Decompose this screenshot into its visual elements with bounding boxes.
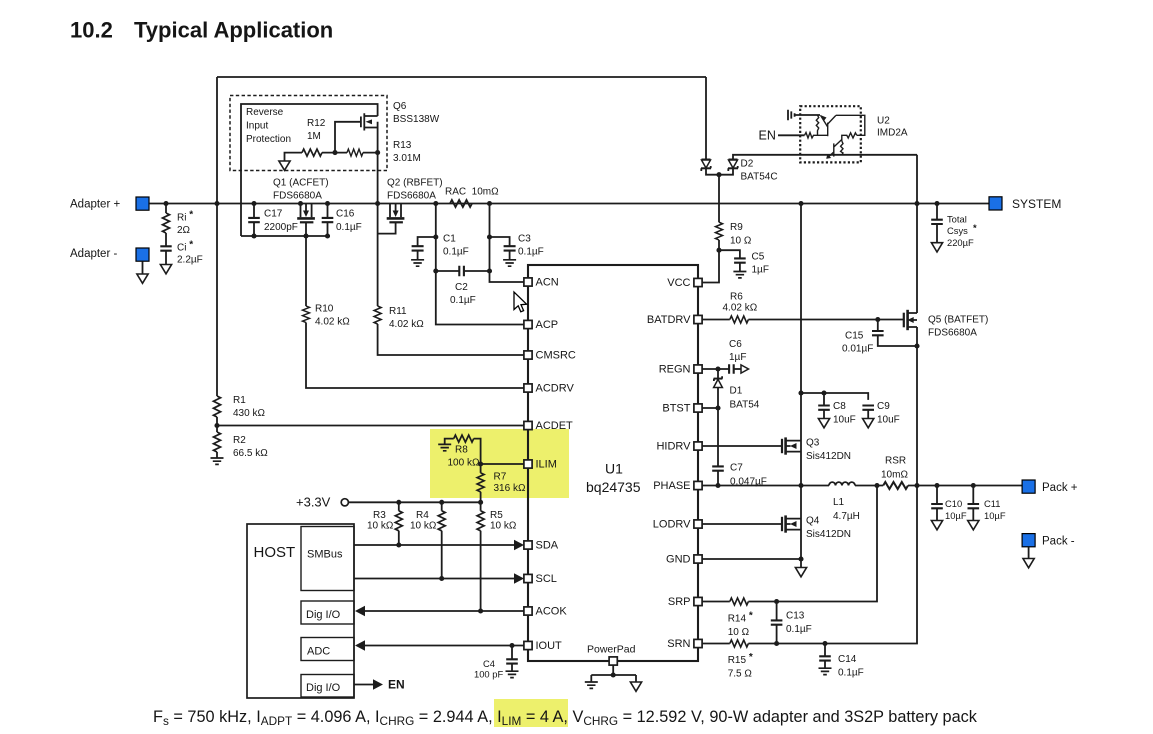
node C2 left bbox=[433, 268, 438, 273]
node R5/R7 top bbox=[478, 500, 483, 505]
transistor Q5 bbox=[904, 310, 917, 330]
svg-text:C13: C13 bbox=[786, 611, 805, 622]
svg-text:66.5 kΩ: 66.5 kΩ bbox=[233, 448, 268, 459]
svg-text:0.1µF: 0.1µF bbox=[518, 247, 544, 258]
U2 box dotted bbox=[800, 106, 861, 162]
Pack - terminal bbox=[1022, 534, 1035, 547]
svg-text:Sis412DN: Sis412DN bbox=[806, 451, 851, 462]
U2 internal transistor 1 bbox=[805, 115, 836, 138]
wire C2 left lead bbox=[436, 270, 459, 272]
Q1 arrow bbox=[303, 211, 309, 218]
pin SCL bbox=[524, 574, 532, 582]
svg-text:Ri *: Ri * bbox=[177, 210, 193, 224]
capacitor C14 bbox=[824, 644, 826, 657]
wire R12-R13 bbox=[322, 152, 347, 154]
node REGN tap bbox=[715, 366, 720, 371]
svg-text:2200pF: 2200pF bbox=[264, 222, 298, 233]
capacitor Ci bbox=[160, 246, 171, 250]
svg-text:U1: U1 bbox=[605, 461, 623, 477]
svg-text:SRP: SRP bbox=[668, 596, 691, 608]
svg-text:GND: GND bbox=[666, 554, 691, 566]
EN arrowhead bbox=[373, 679, 383, 690]
pin BTST bbox=[694, 404, 702, 412]
svg-text:FDS6680A: FDS6680A bbox=[928, 328, 977, 339]
svg-text:C4: C4 bbox=[483, 658, 495, 669]
resistor R9 bbox=[716, 222, 723, 240]
node C1 tap bbox=[433, 234, 438, 239]
capacitor C11 bbox=[972, 486, 974, 504]
resistor R14 bbox=[730, 598, 749, 605]
capacitor C3 bbox=[504, 246, 516, 250]
pin SDA bbox=[524, 541, 532, 549]
wire R7 bottom bbox=[480, 492, 482, 503]
svg-text:C17: C17 bbox=[264, 209, 283, 220]
Adapter + terminal bbox=[136, 197, 149, 210]
svg-text:R5: R5 bbox=[490, 510, 503, 521]
wire R8 right down to ILIM bbox=[474, 439, 481, 473]
mouse cursor bbox=[514, 292, 527, 312]
svg-text:RSR: RSR bbox=[885, 456, 906, 467]
wire D2 common down to R9 (crossover rail) bbox=[718, 175, 720, 223]
diode D2a bbox=[701, 160, 711, 172]
svg-text:ADC: ADC bbox=[307, 646, 330, 658]
svg-text:10 kΩ: 10 kΩ bbox=[490, 521, 517, 532]
wire R1-R2 bbox=[216, 417, 218, 432]
wire C1 branch bbox=[418, 237, 436, 246]
node Q1 rail tap right bbox=[325, 201, 330, 206]
wire SDA bbox=[354, 544, 515, 546]
wire R6 to Q5 gate bbox=[748, 319, 903, 321]
ground (R8) bbox=[438, 444, 451, 450]
transistor Q1 bbox=[297, 204, 315, 223]
wire R5 to ACOK bbox=[480, 531, 482, 611]
ground (C1) bbox=[411, 260, 424, 266]
wire D1 to BTST bbox=[717, 388, 719, 467]
svg-text:10µF: 10µF bbox=[945, 510, 967, 521]
transistor Q6 bbox=[357, 113, 378, 152]
resistor Ri bbox=[163, 213, 170, 233]
pin ACP bbox=[524, 320, 532, 328]
svg-text:Q2 (RBFET): Q2 (RBFET) bbox=[387, 178, 443, 189]
svg-text:430 kΩ: 430 kΩ bbox=[233, 408, 265, 419]
svg-text:Q3: Q3 bbox=[806, 438, 820, 449]
svg-text:Fs = 750 kHz, IADPT = 4.096 A,: Fs = 750 kHz, IADPT = 4.096 A, ICHRG = 2… bbox=[153, 708, 978, 728]
svg-text:ILIM: ILIM bbox=[536, 459, 557, 471]
wire system drop rail (x=801) bbox=[800, 204, 802, 568]
resistor R10 bbox=[303, 306, 310, 323]
capacitor C2 bbox=[459, 266, 464, 276]
dashed box reverse input protection bbox=[230, 96, 387, 171]
pin REGN bbox=[694, 365, 702, 373]
wire GND bbox=[702, 558, 801, 560]
resistor R4 bbox=[441, 502, 443, 511]
svg-text:ACP: ACP bbox=[536, 319, 559, 331]
capacitor C16 bbox=[327, 204, 329, 237]
wire R14 to sense bbox=[748, 486, 877, 602]
node rail common drain bbox=[375, 201, 380, 206]
ground (C5) bbox=[733, 272, 746, 278]
svg-text:+3.3V: +3.3V bbox=[296, 495, 331, 510]
wire EN from host bbox=[354, 684, 374, 686]
Q2 arrow bbox=[393, 211, 399, 218]
svg-text:C1: C1 bbox=[443, 234, 456, 245]
svg-text:C6: C6 bbox=[729, 339, 742, 350]
node ACDET divider bbox=[214, 423, 219, 428]
wire PowerPad grounds bbox=[591, 665, 636, 682]
svg-text:Sis412DN: Sis412DN bbox=[806, 529, 851, 540]
capacitor C17 bbox=[253, 204, 255, 237]
yellow highlight ILIM region bbox=[430, 429, 569, 498]
pin IOUT bbox=[524, 641, 532, 649]
svg-text:Adapter +: Adapter + bbox=[70, 199, 120, 211]
wire Q1 gate lead bbox=[305, 223, 307, 236]
node Q1 gate bbox=[303, 233, 308, 238]
svg-text:Pack +: Pack + bbox=[1042, 482, 1078, 494]
resistor RAC bbox=[450, 200, 472, 207]
wire C2 right lead bbox=[464, 270, 490, 272]
svg-text:R4: R4 bbox=[416, 510, 429, 521]
svg-text:EN: EN bbox=[388, 678, 405, 692]
svg-text:BAT54: BAT54 bbox=[730, 400, 760, 411]
HOST ADC box bbox=[301, 638, 354, 661]
node C17 top bbox=[251, 201, 256, 206]
ground (Pack-) bbox=[1023, 559, 1034, 568]
wire C3 branch bbox=[490, 237, 510, 246]
wire D2b anode to battery line bbox=[733, 155, 917, 160]
pin GND bbox=[694, 555, 702, 563]
SCL arrowhead bbox=[514, 573, 524, 584]
svg-text:EN: EN bbox=[759, 129, 776, 143]
wire top frame bbox=[217, 76, 706, 78]
wire ILIM bbox=[481, 463, 524, 465]
svg-text:Reverse: Reverse bbox=[246, 107, 284, 118]
node C2 right bbox=[487, 268, 492, 273]
ground (C10) bbox=[931, 521, 942, 530]
capacitor C7 bbox=[712, 466, 724, 470]
svg-text:10.2Typical Application: 10.2Typical Application bbox=[70, 17, 333, 42]
capacitor C6 bbox=[729, 364, 734, 373]
svg-text:C9: C9 bbox=[877, 401, 890, 412]
node RSR left / SRP sense bbox=[874, 483, 879, 488]
wire battery line to system rail bbox=[916, 155, 918, 204]
wire RSR right to Pack+ bbox=[908, 485, 1022, 487]
node C13 bottom bbox=[774, 641, 779, 646]
ground (C14) bbox=[819, 668, 832, 674]
ground (C9) bbox=[863, 419, 874, 428]
transistor Q2 bbox=[387, 204, 405, 223]
pin PHASE bbox=[694, 481, 702, 489]
svg-text:10 Ω: 10 Ω bbox=[730, 236, 752, 247]
svg-text:C16: C16 bbox=[336, 209, 355, 220]
wire ACN sense vertical bbox=[490, 204, 525, 283]
svg-text:RAC 10mΩ: RAC 10mΩ bbox=[445, 187, 499, 198]
node C8 top bbox=[821, 390, 826, 395]
svg-text:R13: R13 bbox=[393, 140, 412, 151]
svg-text:C5: C5 bbox=[752, 252, 765, 263]
ground (powerpad right) bbox=[630, 682, 641, 691]
wire Ri top bbox=[165, 204, 167, 214]
capacitor C9 bbox=[862, 406, 874, 410]
pin CMSRC bbox=[524, 351, 532, 359]
svg-text:2Ω: 2Ω bbox=[177, 225, 191, 236]
HOST Dig I/O box bbox=[301, 601, 354, 624]
svg-text:10 Ω: 10 Ω bbox=[728, 627, 750, 638]
node R3 top bbox=[396, 500, 401, 505]
svg-text:REGN: REGN bbox=[659, 364, 691, 376]
wire HIDRV bbox=[702, 445, 782, 447]
ground (Ci) bbox=[160, 265, 171, 274]
svg-text:R10: R10 bbox=[315, 304, 334, 315]
capacitor Csys bbox=[936, 204, 938, 220]
svg-text:10 kΩ: 10 kΩ bbox=[367, 521, 394, 532]
diode D2b bbox=[728, 160, 738, 172]
pin SRN bbox=[694, 639, 702, 647]
svg-text:R12: R12 bbox=[307, 118, 326, 129]
node C10 tap bbox=[934, 483, 939, 488]
node SCL/R4 bbox=[439, 576, 444, 581]
svg-text:10uF: 10uF bbox=[833, 415, 856, 426]
svg-text:PHASE: PHASE bbox=[653, 480, 690, 492]
node ACOK/R5 bbox=[478, 608, 483, 613]
node R9 bottom / C5 bbox=[716, 248, 721, 253]
wire Ci bottom bbox=[165, 251, 167, 265]
svg-text:C11: C11 bbox=[984, 498, 1001, 509]
wire PHASE bbox=[702, 485, 829, 487]
IOUT arrowhead bbox=[355, 640, 365, 651]
resistor R3 bbox=[398, 502, 400, 511]
wire adapter rail bbox=[149, 203, 989, 205]
svg-text:Ci *: Ci * bbox=[177, 240, 193, 254]
wire R9 to VCC bbox=[702, 240, 719, 283]
resistor R11 bbox=[374, 306, 381, 324]
svg-text:IOUT: IOUT bbox=[536, 640, 563, 652]
svg-text:ACOK: ACOK bbox=[536, 606, 568, 618]
resistor R1 bbox=[214, 396, 221, 417]
svg-text:0.1µF: 0.1µF bbox=[450, 295, 476, 306]
svg-text:BATDRV: BATDRV bbox=[647, 314, 691, 326]
node C17 bottom bbox=[251, 233, 256, 238]
wire R11 to CMSRC bbox=[378, 324, 524, 355]
node battery rail top bbox=[914, 201, 919, 206]
svg-text:316 kΩ: 316 kΩ bbox=[494, 483, 526, 494]
svg-text:CMSRC: CMSRC bbox=[536, 350, 576, 362]
ground (powerpad left) bbox=[585, 682, 598, 688]
node C11 tap bbox=[971, 483, 976, 488]
U2 top-side bars symbol bbox=[788, 110, 820, 120]
node powerpad split bbox=[611, 672, 616, 677]
svg-text:R11: R11 bbox=[389, 306, 407, 317]
svg-text:IMD2A: IMD2A bbox=[877, 128, 908, 139]
svg-text:4.02 kΩ: 4.02 kΩ bbox=[315, 317, 350, 328]
node SDA/R3 bbox=[396, 542, 401, 547]
resistor R8 bbox=[454, 435, 474, 442]
svg-text:BAT54C: BAT54C bbox=[741, 172, 778, 183]
svg-text:100 kΩ: 100 kΩ bbox=[448, 458, 480, 469]
svg-text:3.01M: 3.01M bbox=[393, 153, 421, 164]
pin ACDET bbox=[524, 421, 532, 429]
svg-text:ACN: ACN bbox=[536, 277, 559, 289]
wire left vertical from top frame to R1/R2 bbox=[216, 77, 218, 396]
svg-text:R1: R1 bbox=[233, 395, 246, 406]
node BTST bbox=[715, 405, 720, 410]
wire ACOK bbox=[364, 610, 524, 612]
svg-text:bq24735: bq24735 bbox=[586, 479, 641, 495]
svg-text:1M: 1M bbox=[307, 131, 321, 142]
svg-text:FDS6680A: FDS6680A bbox=[273, 191, 322, 202]
node IOUT/C4 bbox=[509, 643, 514, 648]
svg-text:10 kΩ: 10 kΩ bbox=[410, 521, 437, 532]
wire Pack- stub bbox=[1028, 547, 1030, 559]
node RAC left bbox=[433, 201, 438, 206]
resistor R5 bbox=[480, 502, 482, 511]
wire EN to U2 bbox=[778, 134, 805, 136]
wire BATDRV bbox=[702, 319, 730, 321]
wire R10 from Q1 gate bbox=[305, 236, 307, 306]
capacitor C5 bbox=[734, 258, 746, 262]
Q3 arrow bbox=[790, 443, 797, 449]
wire Q2 gate jog bbox=[378, 223, 396, 234]
wire SCL bbox=[354, 578, 515, 580]
svg-text:C10: C10 bbox=[945, 498, 962, 509]
wire R3 to SDA bbox=[398, 531, 400, 545]
svg-text:LODRV: LODRV bbox=[653, 519, 691, 531]
svg-text:HOST: HOST bbox=[254, 544, 296, 561]
Q6 arrow bbox=[366, 119, 373, 124]
svg-text:R7: R7 bbox=[494, 472, 507, 483]
svg-text:SCL: SCL bbox=[536, 573, 557, 585]
svg-text:0.1µF: 0.1µF bbox=[443, 247, 469, 258]
svg-text:SRN: SRN bbox=[667, 638, 690, 650]
svg-text:SMBus: SMBus bbox=[307, 549, 343, 561]
resistor R15 bbox=[730, 640, 749, 647]
resistor R2 bbox=[214, 432, 221, 452]
resistor R7 bbox=[477, 473, 484, 492]
HOST SMBus box bbox=[301, 527, 354, 591]
wire BTST bbox=[702, 407, 718, 409]
wire REGN to D1 bbox=[717, 369, 719, 378]
wire L1 to RSR bbox=[855, 485, 883, 487]
svg-text:R14 *: R14 * bbox=[728, 611, 753, 625]
svg-text:220µF: 220µF bbox=[947, 237, 974, 248]
svg-text:D2: D2 bbox=[741, 159, 754, 170]
inductor L1 bbox=[829, 482, 855, 485]
transistor Q3 bbox=[782, 437, 801, 454]
svg-text:BTST: BTST bbox=[662, 403, 690, 415]
svg-text:SDA: SDA bbox=[536, 540, 559, 552]
wire C1 bottom bbox=[417, 251, 419, 260]
resistor R6 bbox=[730, 316, 749, 323]
wire common-drain down to R11 bbox=[377, 204, 379, 307]
svg-text:ACDRV: ACDRV bbox=[536, 383, 575, 395]
wire +3.3V rail bbox=[348, 501, 480, 503]
svg-text:Q4: Q4 bbox=[806, 516, 820, 527]
node adapter input bbox=[163, 201, 168, 206]
Pack + terminal bbox=[1022, 480, 1035, 493]
pin SRP bbox=[694, 597, 702, 605]
pin HIDRV bbox=[694, 442, 702, 450]
node Csys tap bbox=[934, 201, 939, 206]
svg-text:4.02 kΩ: 4.02 kΩ bbox=[389, 319, 424, 330]
SYSTEM terminal bbox=[989, 197, 1002, 210]
node +3.3V terminal circle bbox=[341, 499, 348, 506]
node C14 top bbox=[822, 641, 827, 646]
node PHASE/FETs bbox=[798, 483, 803, 488]
node C15 to source bbox=[914, 343, 919, 348]
svg-text:4.02 kΩ: 4.02 kΩ bbox=[723, 303, 758, 314]
ground (R12) bbox=[279, 161, 290, 170]
pin BATDRV bbox=[694, 315, 702, 323]
capacitor C4 bbox=[511, 646, 513, 660]
ground (power stage) bbox=[795, 568, 806, 577]
svg-text:1µF: 1µF bbox=[729, 352, 746, 363]
ground (R2) bbox=[211, 458, 224, 464]
wire R15 to pack rail bbox=[748, 486, 917, 644]
capacitor C13 bbox=[776, 602, 778, 621]
svg-text:10uF: 10uF bbox=[877, 415, 900, 426]
svg-text:C8: C8 bbox=[833, 401, 846, 412]
node RSR right rail bbox=[914, 483, 919, 488]
svg-text:10mΩ: 10mΩ bbox=[881, 470, 908, 481]
svg-text:0.1µF: 0.1µF bbox=[838, 668, 864, 679]
node R12/R13 junction bbox=[332, 150, 337, 155]
svg-text:Csys *: Csys * bbox=[947, 222, 977, 236]
node C13 top bbox=[774, 599, 779, 604]
svg-text:Q5 (BATFET): Q5 (BATFET) bbox=[928, 315, 988, 326]
svg-text:Dig I/O: Dig I/O bbox=[306, 609, 341, 621]
node D2 common bbox=[716, 172, 721, 177]
capacitor C15 bbox=[877, 320, 879, 331]
svg-text:PowerPad: PowerPad bbox=[587, 644, 636, 656]
svg-text:ACDET: ACDET bbox=[536, 420, 574, 432]
wire Ri-Ci bbox=[165, 233, 167, 246]
wire C3 bottom bbox=[509, 251, 511, 260]
wire SRN bbox=[702, 643, 730, 645]
svg-text:Input: Input bbox=[246, 121, 268, 132]
svg-text:100 pF: 100 pF bbox=[474, 669, 503, 680]
wire R8 left to ground bbox=[445, 439, 454, 445]
svg-text:FDS6680A: FDS6680A bbox=[387, 191, 436, 202]
ground (C8) bbox=[818, 419, 829, 428]
svg-text:Protection: Protection bbox=[246, 134, 291, 145]
Q4 arrow bbox=[790, 521, 797, 527]
node left rail at adapter rail bbox=[214, 201, 219, 206]
capacitor C10 bbox=[936, 486, 938, 504]
node R4 top bbox=[439, 500, 444, 505]
pin VCC bbox=[694, 278, 702, 286]
pin ILIM bbox=[524, 460, 532, 468]
svg-text:U2: U2 bbox=[877, 116, 890, 127]
U2 output loop bbox=[836, 115, 865, 135]
op-amp U1 body bbox=[528, 265, 698, 661]
ground (C11) bbox=[968, 521, 979, 530]
svg-text:C15: C15 bbox=[845, 331, 864, 342]
ground (C3) bbox=[503, 260, 516, 266]
wire D2 cathodes common bbox=[706, 168, 733, 174]
svg-text:R2: R2 bbox=[233, 435, 246, 446]
node R13 right bbox=[375, 150, 380, 155]
wire Q1 gate net horizontal bbox=[241, 235, 330, 237]
svg-text:7.5 Ω: 7.5 Ω bbox=[728, 669, 753, 680]
wire battery rail vertical bbox=[916, 204, 918, 486]
wire SRP bbox=[702, 601, 730, 603]
svg-text:C3: C3 bbox=[518, 234, 531, 245]
node system rail top bbox=[798, 201, 803, 206]
node RAC right bbox=[487, 201, 492, 206]
Q5 arrow bbox=[907, 317, 913, 323]
wire adapter- stub bbox=[142, 261, 144, 274]
wire Q1 gate net up-over bbox=[241, 104, 378, 236]
svg-text:2.2µF: 2.2µF bbox=[177, 255, 203, 266]
